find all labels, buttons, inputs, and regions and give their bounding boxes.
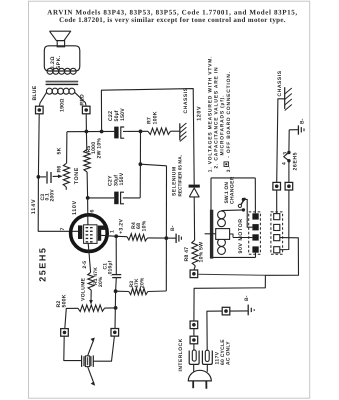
wire P2 pin3 to interlock (AC line) (194, 238, 299, 321)
node C1/R3 (114, 289, 118, 293)
wire B- bus vertical (165, 166, 167, 291)
wire pin 6 (87, 198, 89, 225)
wire primary-right to RED terminal (75, 92, 87, 106)
wire between interlock terminals (193, 329, 195, 337)
wire C2Y up to bus branch (139, 164, 141, 198)
terminal interlock-2 (off-board connection) (190, 336, 198, 344)
node bus/top-loop (100, 130, 104, 134)
capacitor C3 0.1 200V (40, 171, 63, 201)
svg-text:B-: B- (170, 225, 176, 231)
wire right contact up to AC B- terminal (207, 311, 222, 350)
svg-text:2-5: 2-5 (82, 261, 88, 269)
resistor R8 47 10% 5W (184, 197, 205, 270)
ground B- (mid) (166, 225, 181, 243)
resistor R3 47K 20% (116, 277, 167, 295)
svg-text:4: 4 (281, 162, 287, 165)
svg-text:CHANGER: CHANGER (229, 176, 235, 204)
terminal interlock-1 (off-board connection) (190, 321, 198, 329)
wire pot left to terminal (65, 308, 78, 328)
node R4/B- bus (164, 236, 168, 240)
svg-text:500K: 500K (62, 294, 68, 307)
heater of 26EH5 pins 4/3 (281, 130, 298, 183)
capacitor C1 .016uf (102, 236, 121, 291)
svg-text:AC ONLY: AC ONLY (225, 341, 231, 365)
svg-text:90V MOTOR: 90V MOTOR (238, 218, 244, 253)
svg-text:3. - OFF BOARD CONNECTION.: 3. - OFF BOARD CONNECTION. (226, 71, 232, 172)
connector P2 (amp socket) (271, 212, 283, 254)
svg-text:.016µf: .016µf (108, 260, 114, 276)
terminal R8-out (off-board connection) (190, 270, 198, 278)
resistor R1 47K 20% (88, 267, 104, 290)
tube grid box (84, 225, 97, 244)
speaker SPK 3.2 ohm (44, 31, 80, 71)
svg-text:MICROFARADS (µf).: MICROFARADS (µf). (220, 95, 226, 156)
tube plate (78, 225, 82, 239)
svg-text:20%: 20% (98, 276, 104, 287)
svg-text:TONE: TONE (74, 167, 80, 184)
node bus/RED/R5 (85, 130, 89, 134)
node B- bus branch (139, 162, 143, 166)
svg-text:3: 3 (283, 152, 289, 155)
wire terminal up to chassis ground (277, 99, 285, 183)
connector P1 (changer plug, pins) (249, 212, 261, 254)
node pin1/R4/C1 (114, 234, 118, 238)
wire top loop to rectifier (101, 89, 194, 185)
capacitor C2Z 50uf 150V (electrolytic) (108, 108, 148, 139)
wire pins 2-5 down to R1 (88, 243, 90, 272)
note: voltages/capacitance notes (207, 56, 232, 173)
resistor R5 1000 2W 10% (84, 132, 103, 198)
tube cathode (98, 226, 107, 241)
ground chassis (R7) (180, 87, 189, 141)
transformer T1 (output, 190 ohm primary) (46, 68, 79, 112)
potentiometer R6 5K TONE (57, 132, 81, 190)
svg-text:2W 10%: 2W 10% (97, 138, 103, 159)
node bus/C2Y-branch (139, 130, 143, 134)
svg-text:1. VOLTAGES MEASURED WITH VTVM: 1. VOLTAGES MEASURED WITH VTVM. (207, 56, 213, 173)
svg-text:6: 6 (90, 209, 96, 212)
AC plug 117V (188, 364, 211, 388)
svg-text:120V: 120V (196, 106, 202, 121)
svg-text:150V: 150V (119, 172, 125, 185)
svg-text:BLUE: BLUE (32, 85, 38, 100)
resistor R4 68 10% (116, 220, 166, 241)
svg-text:B-: B- (299, 118, 305, 124)
wire R8 terminal to AC node (off-board) (198, 274, 266, 275)
svg-text:10% 5W: 10% 5W (199, 242, 205, 263)
interlock connector contacts (189, 344, 212, 365)
svg-text:114V: 114V (31, 199, 37, 215)
svg-text:1: 1 (110, 230, 116, 233)
motor 90V (on changer) (205, 178, 256, 259)
svg-text:RED: RED (80, 94, 86, 106)
terminal BLUE (off-board connection) (36, 106, 44, 114)
wire pin 1 (101, 235, 116, 236)
wire rotor to P1 pin3 (233, 237, 252, 239)
svg-text:Code 1.87201, is very similar: Code 1.87201, is very similar except for… (59, 16, 286, 24)
wire P2 pin1 up to chassis terminal (276, 190, 278, 214)
terminal RED (off-board connection) (82, 106, 90, 114)
potentiometer R2 500K VOLUME (56, 277, 104, 311)
wire RED terminal to bus (85, 114, 87, 132)
wire motor box right edge to P1 pin1 (254, 178, 256, 213)
wire main bus (67, 130, 114, 132)
wire primary-left to BLUE terminal (39, 92, 46, 106)
wire BLUE terminal down left side to pin 7 (38, 114, 78, 232)
svg-text:26EH5: 26EH5 (293, 152, 299, 171)
svg-text:R6: R6 (57, 166, 63, 173)
switch SW1 on changer (222, 176, 253, 227)
wire P2 pin4 right to heater line (280, 190, 289, 250)
svg-text:INTERLOCK: INTERLOCK (178, 338, 184, 371)
svg-text:R7: R7 (147, 117, 153, 124)
svg-text:25EH5: 25EH5 (38, 247, 48, 282)
svg-text:R8 47: R8 47 (184, 247, 190, 262)
svg-text:RECTIFIER 65 MA.: RECTIFIER 65 MA. (178, 155, 183, 197)
wire pot right / node (105, 307, 116, 309)
svg-text:7: 7 (60, 227, 66, 230)
capacitor C2Y 30uf 150V (electrolytic) (88, 172, 141, 204)
svg-text:110V: 110V (72, 200, 78, 215)
terminal pickup-L (off-board connection) (61, 329, 69, 337)
crystal pickup cartridge (64, 336, 115, 386)
svg-text:100K: 100K (153, 111, 159, 124)
svg-text:2. CAPACITANCE VALUES ARE IN: 2. CAPACITANCE VALUES ARE IN (214, 67, 220, 169)
svg-text:20%: 20% (140, 277, 146, 288)
resistor R7 100K (147, 111, 180, 134)
ground B- (top right) (289, 118, 305, 134)
svg-text:CHASSIS: CHASSIS (277, 70, 283, 96)
terminal chassis-line (off-board connection) (273, 182, 281, 190)
label 117V 60 CYCLE AC ONLY (214, 339, 231, 365)
svg-text:200V: 200V (50, 189, 56, 202)
tube V1 25EH5 (71, 215, 108, 252)
terminal heater-line (off-board connection) (285, 182, 293, 190)
svg-text:B-: B- (244, 295, 250, 301)
node R5/C2Y/pin6 (86, 196, 90, 200)
svg-text:10%: 10% (142, 220, 148, 231)
svg-text:SPK.: SPK. (56, 55, 62, 69)
svg-text:190Ω: 190Ω (60, 98, 66, 112)
node junction blue/C3 (37, 175, 41, 179)
wire jog to B- bus (140, 164, 166, 166)
pot wiper arrow (90, 290, 92, 301)
diode selenium rectifier 65 MA (172, 155, 200, 197)
wire P1 pin4 to motor box bottom (255, 253, 257, 258)
svg-text:VOLUME: VOLUME (81, 277, 87, 301)
ground B- (bottom) (230, 295, 254, 315)
svg-text:150V: 150V (120, 108, 126, 121)
ground chassis (top right) (277, 70, 292, 110)
svg-text:5K: 5K (57, 147, 63, 154)
svg-text:CHASSIS: CHASSIS (183, 87, 189, 113)
terminal AC-B- (off-board connection) (222, 307, 230, 315)
svg-text:+3.2V: +3.2V (118, 219, 124, 234)
terminal pickup-R (off-board connection) (111, 329, 119, 337)
